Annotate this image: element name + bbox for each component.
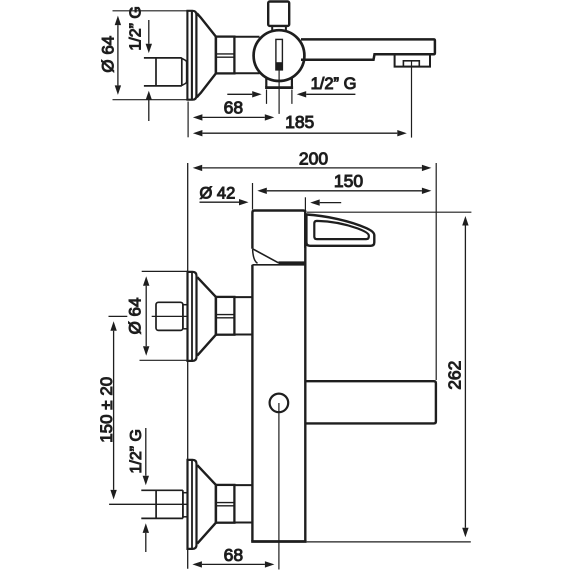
diameter 64 dimension line with arrows (top view) [115,16,121,95]
upper escutcheon face plate (front view) [188,272,197,361]
svg-text:150 ± 20: 150 ± 20 [97,377,116,443]
1/2 G leader arrow up (front view) [143,523,149,552]
svg-text:1/2” G: 1/2” G [128,6,145,50]
dimension 185 (top view) [193,130,407,136]
escutcheon face plate (top view) [186,11,196,100]
drain knob circle (front view) [270,394,289,413]
262 bottom extension line [307,541,471,543]
arrow pointing right at port left edge [227,91,261,97]
connecting pipe to valve (top view) [234,37,259,73]
handle (top view) [268,2,289,31]
lower connector nut (front view) [216,485,235,523]
valve body circle (top view) [254,30,305,81]
svg-text:262: 262 [444,361,464,390]
lower inlet block (front view) [141,490,187,518]
svg-text:185: 185 [285,112,314,132]
svg-text:Ø 64: Ø 64 [126,298,145,335]
262 top extension line [307,211,471,213]
lower connecting pipe (front view) [234,485,252,522]
spout (top view) [301,39,435,59]
diameter 42 leader arrow (points at body left edge) [200,199,249,205]
svg-text:150: 150 [334,171,363,191]
diameter 64 extension ticks (top view) [113,11,188,100]
upper inlet center line [109,315,188,317]
lower inlet center line [109,503,187,505]
bottom port of valve (top view) [265,78,293,88]
aerator leader line (extension for 185) [411,61,413,138]
aerator housing (top view) [395,54,430,66]
wall inlet pipe 1/2" G (top view) [144,58,187,86]
joint line (thick) under cap [278,261,305,264]
escutcheon cone (top view) [197,13,216,97]
main body (front view) [251,211,306,542]
spout tip extension line (for 200/150) [435,163,437,380]
spout (front view, projecting) [305,381,436,423]
svg-text:1/2” G: 1/2” G [128,429,145,473]
upper connector nut (front view) [216,297,235,335]
1/2 G leader arrow down (top view) [146,20,152,53]
body cap (upper section, front view) [252,211,305,264]
diameter 64 ticks (front view) [140,271,188,360]
dimension 68 (top view) [193,114,274,120]
lower escutcheon face plate (front view) [188,460,197,549]
upper escutcheon cone (front view) [197,277,216,355]
1/2 G leader arrow up (top view) [146,91,152,121]
dimension 150 +/- 20 (vertical) [110,321,116,499]
dimension 150 [257,188,431,194]
port extension lines (top view) [267,90,292,104]
arrow pointing left at body right edge [310,199,341,205]
lower escutcheon cone (front view) [197,465,216,543]
upper inlet block (front view) [156,302,187,330]
dimension 262 (vertical, right) [462,216,468,537]
upper connecting pipe (front view) [234,297,252,334]
svg-text:68: 68 [224,97,243,117]
valve center line (top view) [278,71,280,114]
body center line (front view) [278,403,280,570]
cartridge slot (top view) [276,39,283,70]
extension line below escutcheon face (top view) [187,102,189,138]
svg-text:1/2” G: 1/2” G [311,75,357,93]
handle lever (front view) [306,215,374,246]
arrow pointing left at port right edge (1/2 G) [297,91,356,97]
body left extension line (for 150 / diam 42) [252,183,254,210]
dimension 200 [193,165,432,171]
dimension 68 (bottom) [192,561,274,567]
body right edge extension line (above handle) [304,197,306,212]
connector nut (top view) [216,37,235,74]
svg-text:200: 200 [299,148,328,168]
svg-text:Ø 42: Ø 42 [200,185,236,203]
wall reference line (extension for 200 / 68) [187,163,189,569]
diameter 64 arrows (front view) [143,276,149,356]
aerator insert (top view) [403,61,419,67]
1/2 G leader arrow down (front view) [143,428,149,485]
svg-text:68: 68 [224,545,243,565]
svg-text:Ø 64: Ø 64 [99,36,118,73]
